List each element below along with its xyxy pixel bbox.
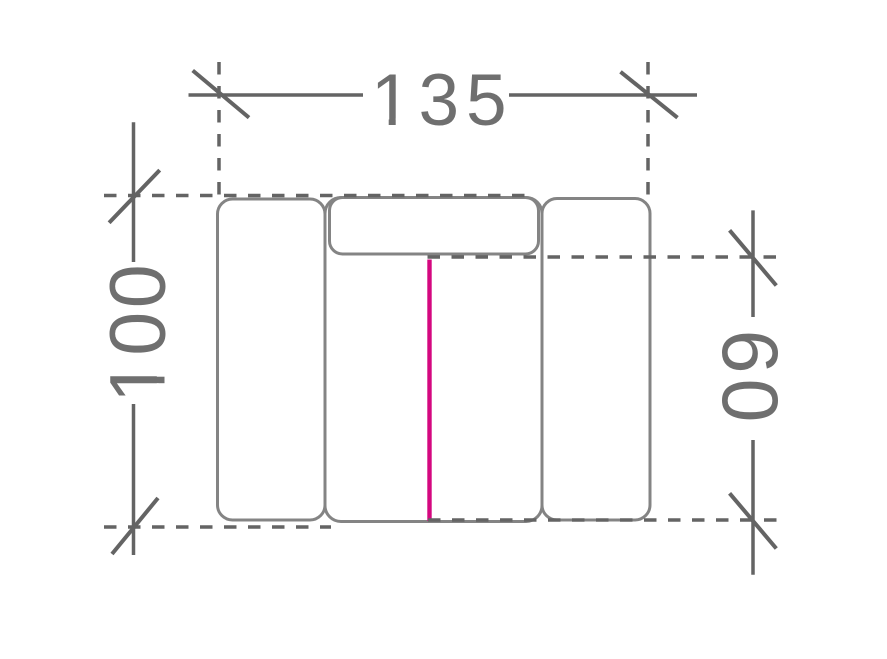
bottom-left horizontal dashed extension (100 bottom) — [104, 525, 331, 529]
dimension line 60 (right, two segments around label) — [751, 210, 755, 317]
top-left horizontal dashed extension (100 top) — [104, 194, 526, 198]
bottom-right horizontal dashed extension (60 bottom) — [428, 518, 786, 522]
tick 60 top — [730, 230, 777, 285]
svg-text:100: 100 — [93, 261, 182, 403]
left vertical dashed extension (135 left) — [217, 62, 221, 197]
tick 60 bottom — [730, 493, 777, 548]
magenta divider line — [427, 260, 431, 522]
dimension line 100 (left, two segments around label) — [132, 122, 136, 262]
top-right horizontal dashed extension (60 top) — [428, 255, 787, 259]
tick 135 left — [193, 71, 249, 118]
tick 100 bottom — [112, 498, 158, 554]
left armrest — [218, 199, 326, 520]
tick 135 right — [621, 72, 678, 118]
right vertical dashed extension (135 right) — [646, 62, 650, 199]
right armrest — [542, 199, 650, 521]
svg-text:60: 60 — [706, 330, 795, 428]
svg-text:135: 135 — [371, 60, 514, 141]
backrest — [330, 198, 539, 255]
dimension line 135 (top, two segments around label) — [189, 93, 364, 97]
tick 100 top — [109, 170, 160, 223]
middle seat — [325, 198, 542, 522]
